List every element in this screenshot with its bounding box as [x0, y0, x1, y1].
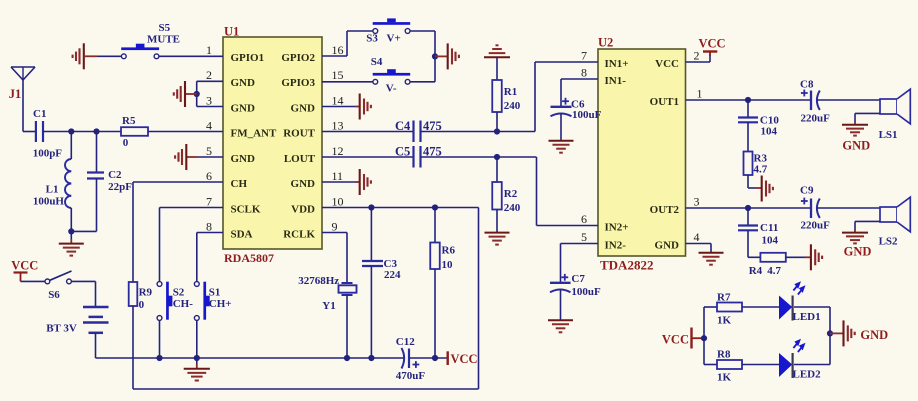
wire C3 bottom [370, 266, 372, 358]
svg-text:LOUT: LOUT [284, 153, 316, 165]
svg-text:S3: S3 [366, 33, 378, 45]
svg-text:GND: GND [231, 77, 256, 89]
wire R1 top [496, 57, 498, 80]
ground at S3/S4 [435, 43, 459, 69]
node junction R6/VCC rail [432, 355, 438, 361]
svg-text:VCC: VCC [662, 333, 689, 347]
wire U2 pin5 to C7 [561, 244, 599, 283]
wire C8 to LS1 [817, 99, 880, 101]
svg-text:LS1: LS1 [879, 129, 898, 141]
wire LED1 to right rail [794, 306, 830, 308]
svg-text:C5: C5 [395, 145, 410, 159]
svg-text:U2: U2 [598, 36, 613, 50]
svg-text:C7: C7 [571, 273, 585, 285]
node junction S2/rail [156, 355, 162, 361]
capacitor C11 104 [738, 208, 779, 247]
svg-text:14: 14 [332, 93, 344, 107]
svg-text:R1: R1 [504, 86, 517, 98]
svg-text:5: 5 [581, 230, 587, 244]
svg-text:VCC: VCC [655, 58, 679, 70]
svg-text:TDA2822: TDA2822 [600, 258, 653, 273]
svg-text:GND: GND [231, 102, 256, 114]
node junction LED rail/GND [827, 330, 833, 336]
svg-text:R5: R5 [122, 115, 136, 127]
wire U1 pin2/pin3 [197, 81, 223, 106]
node junction FM_ANT/L1 [68, 128, 74, 134]
wire U2 pin4 [686, 244, 712, 253]
battery BT 3V [46, 307, 108, 335]
svg-text:GPIO2: GPIO2 [281, 52, 315, 64]
wire C7 bottom [560, 290, 562, 321]
node junction S3/S4/ground [432, 53, 438, 59]
wire C10 to R3 [747, 122, 749, 151]
capacitor C3 224 [362, 258, 401, 281]
wire R5 to U1 pin4 [148, 131, 223, 133]
svg-text:IN1+: IN1+ [605, 58, 629, 70]
wire R7 to LED1 [742, 306, 780, 308]
wire C2 bottom [96, 179, 98, 232]
svg-text:11: 11 [332, 169, 344, 183]
pushbutton S2 CH- [157, 282, 193, 321]
svg-text:CH-: CH- [173, 298, 194, 310]
svg-text:240: 240 [504, 100, 521, 112]
svg-text:6: 6 [581, 212, 587, 226]
svg-text:R7: R7 [717, 292, 731, 304]
wire bottom rail (VDD net) [133, 388, 479, 390]
capacitor C4 475 [395, 119, 442, 142]
svg-text:C1: C1 [33, 108, 46, 120]
svg-text:OUT1: OUT1 [650, 96, 679, 108]
wire U2 pin8 to C6 [561, 79, 598, 107]
svg-text:LED2: LED2 [793, 369, 822, 381]
ground below C7 [548, 320, 573, 332]
wire U2 pin2 to VCC [686, 55, 711, 62]
ground at U1 pins 2-3 [174, 81, 197, 107]
wire C9 to LS2 [817, 207, 880, 209]
resistor R1 240 [492, 80, 521, 112]
wire LED left rail [704, 307, 717, 365]
svg-text:VCC: VCC [451, 352, 478, 366]
svg-text:3: 3 [206, 93, 212, 107]
wire U1 pin8 SDA to S1 [197, 233, 223, 282]
svg-text:16: 16 [332, 43, 344, 57]
svg-text:R2: R2 [504, 188, 518, 200]
power VCC at rail right [448, 351, 478, 366]
svg-text:S1: S1 [209, 287, 221, 299]
ground at S5 [73, 43, 97, 69]
wire L1 bottom [71, 208, 96, 231]
svg-text:22pF: 22pF [108, 181, 132, 193]
wire U1 pin6 CH [133, 182, 223, 282]
svg-text:GND: GND [291, 178, 316, 190]
svg-text:CH: CH [231, 178, 248, 190]
svg-text:240: 240 [504, 202, 521, 214]
node junction OUT2/C11 [745, 205, 751, 211]
power VCC at U2 [699, 37, 726, 57]
switch S6 [45, 271, 72, 301]
node junction S1/rail [194, 355, 200, 361]
node junction VCC/LED rail [701, 335, 707, 341]
resistor R6 10 [430, 243, 455, 272]
svg-text:U1: U1 [224, 25, 239, 39]
wire U1 pin7 SCLK to S2 [160, 208, 224, 282]
wire U1 pin12 LOUT to C5 [322, 156, 414, 158]
node junction Y1/rail [344, 355, 350, 361]
resistor R5 0 [121, 115, 148, 149]
ground at rail [184, 358, 210, 381]
svg-text:S5: S5 [159, 22, 171, 34]
pushbutton S4 V- [371, 56, 410, 95]
ground at R3 [762, 176, 773, 202]
svg-text:2: 2 [694, 49, 700, 63]
svg-text:15: 15 [332, 68, 344, 82]
svg-text:100pF: 100pF [33, 148, 63, 160]
svg-text:VCC: VCC [11, 259, 38, 273]
pushbutton S3 V+ [366, 18, 410, 44]
svg-text:FM_ANT: FM_ANT [231, 127, 277, 139]
wire C2 top [96, 132, 98, 172]
capacitor C5 475 [395, 145, 442, 168]
svg-text:4: 4 [694, 230, 700, 244]
node junction R2/LOUT [494, 154, 500, 160]
node junction pins 2-3 [194, 91, 200, 97]
svg-text:L1: L1 [46, 184, 59, 196]
wire R1 bottom [496, 112, 498, 132]
svg-text:C2: C2 [108, 169, 122, 181]
svg-text:C11: C11 [760, 222, 778, 234]
wire C5 to R2/IN2+ [421, 157, 599, 226]
ground below C6 [549, 141, 574, 153]
speaker LS2 [879, 197, 911, 247]
wire L1 top [70, 132, 72, 160]
svg-text:3: 3 [694, 195, 700, 209]
wire C12 to VCC port [409, 357, 448, 359]
resistor R2 240 [492, 182, 521, 214]
svg-text:GND: GND [291, 102, 316, 114]
crystal Y1 32768Hz [298, 275, 356, 312]
svg-text:V+: V+ [387, 33, 401, 45]
wire OUT2 to C9 [686, 207, 812, 209]
capacitor C6 100uF [551, 98, 602, 121]
wire R2 bottom [496, 210, 498, 233]
svg-text:R8: R8 [717, 349, 731, 361]
svg-text:R9: R9 [139, 287, 153, 299]
svg-text:V-: V- [386, 83, 397, 95]
svg-text:10: 10 [442, 259, 454, 271]
resistor R4 4.7 [749, 253, 786, 277]
wire LS2 to GND [855, 221, 880, 232]
svg-text:LS2: LS2 [879, 236, 898, 248]
svg-text:104: 104 [761, 126, 778, 138]
resistor R7 1K [717, 292, 742, 327]
svg-text:224: 224 [384, 269, 401, 281]
ground GND at LS1 [842, 125, 870, 153]
svg-text:100uF: 100uF [571, 286, 601, 298]
ground at U1 pin11 [360, 169, 371, 195]
LED LED2 [779, 339, 821, 381]
svg-text:470uF: 470uF [396, 370, 426, 382]
op-amp U1 RDA5807 IC body [206, 25, 344, 266]
svg-text:SCLK: SCLK [231, 203, 261, 215]
ground GND at LEDs [830, 320, 888, 346]
svg-text:220uF: 220uF [801, 220, 831, 232]
svg-text:R4: R4 [749, 265, 763, 277]
wire U1 pin14 [322, 106, 360, 108]
wire S1 bottom to ground rail [196, 320, 198, 358]
capacitor C2 22pF [87, 169, 132, 193]
wire S4 to common [410, 81, 435, 83]
wire S5 to U1 pin1 [159, 55, 223, 57]
wire C6 bottom [560, 114, 562, 141]
svg-text:C8: C8 [800, 79, 814, 91]
svg-text:12: 12 [332, 144, 344, 158]
svg-text:GND: GND [844, 245, 872, 259]
op-amp U2 TDA2822 IC body [581, 36, 703, 273]
wire VCC to S6 [21, 280, 46, 282]
speaker LS1 [879, 89, 911, 141]
resistor R8 1K [717, 349, 742, 384]
wire C1 to R5 [43, 131, 121, 133]
wire U1 pin11 [322, 181, 360, 183]
wire R6 top [434, 208, 436, 243]
wire U1 pin10 VDD rail [322, 208, 479, 390]
svg-text:0: 0 [139, 299, 145, 311]
svg-text:S4: S4 [371, 56, 383, 68]
wire LS1 to GND [855, 113, 880, 124]
svg-text:ROUT: ROUT [283, 127, 315, 139]
ground GND at LS2 [842, 233, 871, 259]
antenna J1 [9, 67, 35, 101]
resistor R3 4.7 [744, 152, 768, 176]
wire battery to ground rail [96, 333, 405, 358]
capacitor C7 100uF [550, 273, 601, 298]
capacitor C12 470uF [396, 336, 426, 382]
svg-text:4.7: 4.7 [767, 265, 781, 277]
svg-text:MUTE: MUTE [147, 34, 180, 46]
ground above R1 [484, 45, 510, 57]
svg-text:4: 4 [206, 118, 212, 132]
svg-text:4.7: 4.7 [754, 164, 768, 176]
node junction R1/ROUT [494, 128, 500, 134]
wire C3 top [370, 208, 372, 262]
svg-text:GPIO3: GPIO3 [281, 77, 315, 89]
svg-text:RCLK: RCLK [283, 228, 315, 240]
svg-text:J1: J1 [9, 87, 21, 101]
wire R6 bottom [434, 269, 436, 358]
ground at U1 pin5 [175, 144, 197, 170]
capacitor C10 104 [738, 100, 779, 138]
svg-text:GPIO1: GPIO1 [231, 52, 265, 64]
wire U1 pin13 ROUT to C4 [322, 131, 414, 133]
capacitor C9 220uF [800, 185, 830, 232]
svg-text:8: 8 [581, 66, 587, 80]
svg-text:100uF: 100uF [572, 109, 602, 121]
svg-text:VCC: VCC [699, 37, 726, 51]
ground at U2 pin4 [699, 253, 724, 265]
svg-text:GND: GND [231, 153, 256, 165]
power VCC at LEDs [662, 328, 704, 349]
node junction FM_ANT/C2 [93, 128, 99, 134]
capacitor C1 100pF [33, 108, 63, 160]
wire S2 bottom to ground rail [159, 320, 161, 358]
ground below L1/C2 [59, 231, 84, 255]
svg-text:100uH: 100uH [33, 196, 65, 208]
node junction VDD/C3 [368, 204, 374, 210]
svg-text:13: 13 [332, 118, 344, 132]
svg-text:8: 8 [206, 219, 212, 233]
wire R8 to LED2 [742, 364, 780, 366]
svg-text:6: 6 [206, 169, 212, 183]
svg-text:CH+: CH+ [209, 298, 232, 310]
svg-text:1K: 1K [717, 372, 732, 384]
inductor L1 100uH [33, 159, 71, 208]
svg-text:10: 10 [332, 194, 344, 208]
node junction VDD/R6 [432, 204, 438, 210]
svg-text:BT 3V: BT 3V [46, 323, 77, 335]
node junction L1/C2 [68, 228, 74, 234]
svg-text:OUT2: OUT2 [650, 204, 680, 216]
svg-text:2: 2 [206, 68, 212, 82]
pushbutton S1 CH+ [194, 282, 231, 321]
svg-text:220uF: 220uF [801, 113, 831, 125]
wire U1 pin9 RCLK to Y1 [322, 233, 347, 284]
ground at R4 [811, 244, 822, 270]
svg-text:VDD: VDD [291, 203, 315, 215]
svg-text:Y1: Y1 [322, 300, 335, 312]
svg-text:7: 7 [206, 194, 212, 208]
wire S6 to battery [71, 281, 95, 307]
svg-text:5: 5 [206, 144, 212, 158]
wire R4 to ground [786, 256, 811, 258]
svg-text:1: 1 [697, 87, 703, 101]
svg-text:IN2+: IN2+ [605, 221, 629, 233]
ground below R2 [485, 233, 510, 245]
node junction C3/rail [368, 355, 374, 361]
wire LED2 to right rail [794, 307, 830, 365]
svg-text:GND: GND [842, 139, 870, 153]
wire Y1 to ground rail [346, 295, 348, 358]
wire R2 top [496, 157, 498, 182]
LED LED1 [779, 281, 821, 323]
svg-text:SDA: SDA [231, 228, 253, 240]
svg-text:LED1: LED1 [793, 311, 821, 323]
switch S5 MUTE [121, 22, 180, 59]
capacitor C8 220uF [800, 79, 830, 125]
svg-text:GND: GND [655, 239, 680, 251]
svg-text:C9: C9 [800, 185, 814, 197]
svg-text:104: 104 [762, 235, 779, 247]
resistor R9 0 [129, 282, 153, 311]
svg-text:IN1-: IN1- [605, 75, 627, 87]
wire R9 bottom to bottom rail [132, 306, 134, 389]
svg-text:9: 9 [332, 219, 338, 233]
wire OUT1 to C8 [686, 99, 812, 101]
svg-text:GND: GND [860, 328, 888, 342]
wire S3 to common [410, 31, 435, 82]
svg-text:1: 1 [206, 43, 212, 57]
svg-text:S6: S6 [48, 289, 60, 301]
wire antenna to C1 [23, 80, 35, 132]
wire U1 pin5 [197, 156, 223, 158]
svg-text:R6: R6 [442, 245, 456, 257]
ground at U1 pin14 [360, 94, 371, 120]
svg-text:32768Hz: 32768Hz [298, 275, 339, 287]
svg-text:7: 7 [581, 49, 587, 63]
svg-text:1K: 1K [717, 315, 732, 327]
svg-text:C4: C4 [395, 119, 411, 133]
svg-text:RDA5807: RDA5807 [224, 251, 274, 265]
wire C4 to R1/IN1+ [421, 62, 599, 132]
wire C11 to R4 [748, 230, 760, 257]
power VCC top-left [11, 259, 38, 282]
svg-text:C12: C12 [396, 336, 415, 348]
wire ground to S5 [97, 55, 121, 57]
wire U1 pin16 to S3 [322, 31, 373, 56]
node junction OUT1/C10 [745, 97, 751, 103]
wire U1 pin15 to S4 [322, 81, 373, 83]
svg-text:S2: S2 [173, 287, 185, 299]
svg-text:IN2-: IN2- [605, 239, 627, 251]
wire R3 bottom [748, 175, 762, 188]
svg-text:0: 0 [123, 137, 129, 149]
